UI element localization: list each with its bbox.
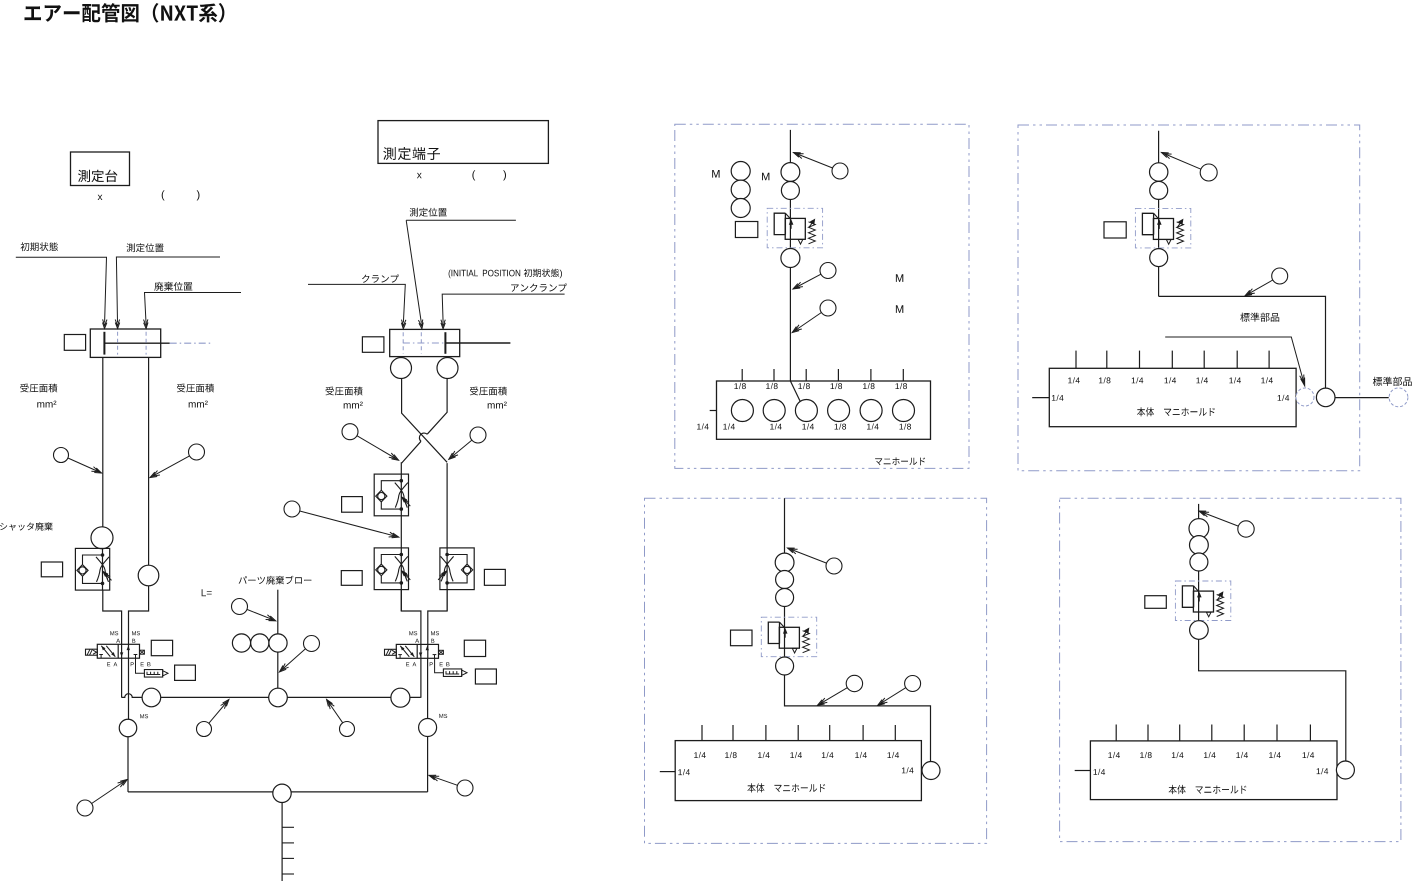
dashed enclosure box1: [675, 124, 969, 468]
fitting circles column box4: [1189, 519, 1209, 571]
wire down and right to manifold box3: [785, 675, 931, 762]
valve V1 port labels EA P EB: [107, 662, 150, 666]
manifold block box4: [1075, 725, 1337, 800]
wire supply line box2: [1159, 131, 1326, 388]
speed controller F4 lower-right mirrored: [438, 548, 474, 590]
callout crossing line top box4: [1199, 511, 1254, 537]
callout to line box1 b: [792, 300, 836, 333]
wire between circles and regulator box4: [1198, 571, 1200, 621]
label INITIAL POSITION 初期状態: [449, 269, 562, 279]
speed controller F3 lower-left: [374, 548, 410, 590]
label box right of V2: [464, 640, 485, 656]
wire P-port to silencer: [136, 658, 145, 673]
label アンクランプ with leader: [441, 283, 567, 328]
port circle B below right cylinder: [437, 358, 458, 379]
wire between circles and regulator box3: [784, 607, 786, 658]
callout to wire box3 b: [878, 676, 921, 706]
label box for F4: [484, 569, 505, 585]
label box right of V1: [151, 640, 172, 655]
label 1/4 outside box1: [697, 423, 709, 429]
bottom bus line: [128, 791, 428, 793]
label M right box1 b: [896, 305, 903, 313]
solenoid valve V1 5/2: [86, 644, 145, 658]
wire jogs down to valve V2: [401, 590, 447, 698]
fitting circles column M box1: [731, 162, 750, 218]
label 1/4 left inside box3: [678, 769, 690, 775]
speed controller F1 on A-line: [75, 548, 111, 590]
callout circle to B-line: [150, 444, 205, 478]
label 本体 マニホールド box4: [1169, 785, 1247, 794]
label x ( ) under 測定端子: [417, 170, 506, 180]
label 1/4 right inside box4: [1317, 768, 1329, 774]
speed controller F2 upper: [374, 474, 410, 516]
crossover wires X with hop: [402, 379, 448, 464]
regulator R1 box1: [767, 208, 822, 248]
callout to blow branch lower: [280, 636, 320, 672]
solenoid valve V2 5/2: [385, 644, 444, 658]
label パーツ廃棄ブロー: [239, 576, 312, 585]
silencer on V2 P-port: [443, 669, 467, 677]
label 初期状態 with leader: [16, 242, 107, 328]
callout to crossover left: [342, 424, 399, 461]
callout arrow to bottom bus right: [429, 775, 473, 796]
label 測定位置 with leader: [115, 243, 220, 328]
dashed enclosure box4: [1060, 498, 1401, 841]
callout to blow branch upper: [232, 599, 276, 621]
wire B-line to bottom bus: [127, 737, 129, 792]
label 受圧面積 mm2 left: [20, 384, 57, 408]
port circle outlet box4: [1336, 761, 1354, 779]
label 受圧面積 mm2 right-cyl-left: [326, 387, 363, 409]
manifold port labels 1/8 row box1: [734, 383, 907, 389]
port circle on B-line: [138, 565, 159, 586]
callout to supply top box3: [788, 548, 843, 574]
wire supply line box1: [790, 130, 800, 402]
valve V2 port labels EA P EB: [406, 662, 449, 666]
label クランプ with leader: [308, 274, 406, 328]
callout arrow to main line left: [197, 700, 229, 737]
label L=: [202, 589, 212, 596]
label box for F1: [41, 562, 62, 577]
port circle P1 on main line: [142, 688, 161, 707]
MS port circle right: [419, 714, 448, 737]
label 測定位置 right with leader: [406, 208, 516, 329]
sensor box on right cylinder: [362, 337, 384, 353]
main supply line 1 with hop: [121, 694, 420, 698]
label 標準部品 box2 upper: [1240, 313, 1279, 322]
manifold block box2 本体マニホールド: [1032, 351, 1296, 427]
manifold block box3: [660, 725, 922, 801]
MS port circle left: [119, 714, 148, 737]
regulator R4 box4: [1175, 581, 1230, 621]
port circle on bottom bus: [273, 784, 291, 802]
regulator R2 box2: [1135, 208, 1190, 248]
callout to wire box2: [1245, 268, 1288, 296]
label 1/4 right inside box3: [902, 767, 914, 773]
label box left of regulator box2: [1104, 222, 1126, 238]
fitting circles column box3: [775, 553, 794, 606]
wire left line through speed controllers: [400, 462, 402, 611]
label x ( ) under 測定台: [98, 190, 200, 200]
cylinder 測定端子 actuator: [390, 329, 511, 356]
wire A-line jog down to valve: [103, 590, 122, 697]
label M mid box1: [762, 173, 769, 181]
port circle outlet box2: [1316, 388, 1335, 407]
port circle below regulator box3: [776, 657, 794, 675]
label box for V2 silencer: [475, 669, 496, 684]
supply drop with ticks: [282, 803, 294, 881]
dashed enclosure box2: [1018, 125, 1360, 471]
silencer on V1 P-port: [144, 670, 168, 678]
label 1/4 left inside box4: [1094, 769, 1106, 775]
label 受圧面積 mm2 right: [177, 384, 214, 408]
callout circle to A-line: [54, 448, 102, 474]
label 標準部品 box2 right: [1373, 377, 1412, 386]
wire to standard part box2: [1335, 397, 1389, 399]
wire right branch to bottom bus: [427, 658, 429, 792]
callout arrow to bottom bus left: [77, 780, 127, 817]
label 本体 マニホールド box2: [1137, 407, 1215, 416]
wire B-line from cylinder down: [148, 357, 150, 565]
label box for silencer: [175, 665, 196, 680]
wire down and right to manifold box4: [1199, 639, 1346, 761]
callout to wire box3 a: [818, 675, 863, 705]
callout to line box1 a: [793, 263, 836, 290]
port circle outlet box3: [922, 762, 940, 780]
callout to supply top box1: [794, 153, 849, 180]
label 1/4 right inside box2: [1278, 395, 1290, 401]
label M right box1 a: [896, 274, 903, 282]
manifold block box1: [710, 369, 931, 439]
cylinder 測定台 actuator: [90, 329, 212, 357]
manifold port labels box3: [694, 752, 899, 758]
dashed circle standard part box2: [1389, 388, 1408, 407]
port circle on A-line: [91, 527, 113, 549]
manifold bottom labels box1: [723, 423, 911, 429]
label box left of regulator box3: [731, 630, 753, 646]
label 1/4 left inside box2: [1052, 395, 1064, 401]
valve V1 port labels MS A B: [110, 631, 140, 643]
leader line to manifold outlet box2: [1165, 337, 1305, 386]
label box for F3: [341, 571, 362, 586]
valve V2 port labels MS A B: [409, 631, 439, 643]
wire B-line jog down through valve: [129, 586, 149, 719]
wire supply line box4: [1198, 504, 1200, 519]
port circle below regulator box1: [781, 249, 800, 268]
dashed port circle at manifold outlet box2: [1296, 388, 1314, 406]
label box under M circles box1: [735, 222, 757, 238]
title エアー配管図（NXT系）: [25, 3, 225, 23]
callout arrow to main line right: [327, 700, 355, 737]
wire A-line from cylinder to speed controller: [102, 357, 104, 526]
port circle below regulator box4: [1190, 621, 1209, 640]
label 本体 マニホールド box3: [747, 783, 825, 792]
dashed enclosure box3: [645, 498, 987, 843]
port circle A below right cylinder: [391, 358, 412, 379]
label マニホールド box1: [875, 457, 925, 465]
fitting circles box2: [1150, 163, 1168, 200]
label 受圧面積 mm2 right-cyl-right: [470, 387, 507, 409]
manifold port labels box2: [1068, 377, 1273, 383]
label box 測定台: [71, 152, 130, 186]
regulator R3 box3: [761, 617, 816, 657]
fitting circles row on blow branch: [232, 634, 287, 652]
wire V2 P-port to silencer: [435, 658, 444, 672]
label M left box1: [712, 170, 719, 178]
callout to crossover right: [449, 427, 486, 459]
wire right line through speed controller: [446, 463, 448, 611]
fitting circles on line box1: [781, 163, 800, 200]
callout to left line below F2: [284, 501, 399, 538]
label box for F2: [342, 497, 363, 513]
label box 測定端子: [378, 121, 548, 164]
port circle P2 on main line (blow): [269, 688, 288, 707]
port circle below regulator box2: [1150, 249, 1168, 267]
label 廃棄位置 with leader: [144, 282, 242, 329]
wire supply line box3: [784, 498, 786, 553]
label box left of regulator box4: [1145, 596, 1167, 609]
sensor box on cylinder left: [64, 335, 85, 351]
callout to supply top box2: [1162, 153, 1218, 182]
label シャッタ廃棄: [0, 522, 53, 530]
manifold port labels box4: [1108, 752, 1314, 758]
wire blow branch vertical: [277, 590, 279, 689]
port circle P3 on main line: [391, 688, 410, 707]
